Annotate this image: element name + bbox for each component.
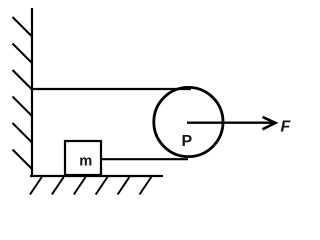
wall hatch 5: [13, 123, 33, 143]
svg-text:P: P: [181, 133, 192, 150]
force arrow head: [263, 117, 276, 129]
block m (rectangle on floor): [65, 141, 101, 175]
pulley P (circle): [154, 87, 223, 156]
svg-text:F: F: [281, 119, 292, 136]
wall hatch 6: [13, 150, 33, 170]
force arrow shaft: [187, 121, 273, 123]
floor (horizontal line, bottom): [30, 175, 163, 177]
lower rope (block to pulley bottom): [101, 158, 188, 160]
wall hatch 2: [13, 44, 33, 64]
wall hatch 4: [13, 97, 33, 117]
floor hatch 6: [140, 177, 152, 195]
wall hatch 3: [13, 70, 33, 90]
upper rope (wall to pulley top): [32, 88, 191, 90]
wall hatch 1: [13, 17, 33, 37]
floor hatch 1: [30, 177, 42, 195]
floor hatch 5: [118, 177, 130, 195]
floor hatch 4: [96, 177, 108, 195]
floor hatch 3: [74, 177, 86, 195]
floor hatch 2: [52, 177, 64, 195]
wall (vertical line, left): [31, 8, 33, 177]
svg-text:m: m: [79, 153, 92, 170]
